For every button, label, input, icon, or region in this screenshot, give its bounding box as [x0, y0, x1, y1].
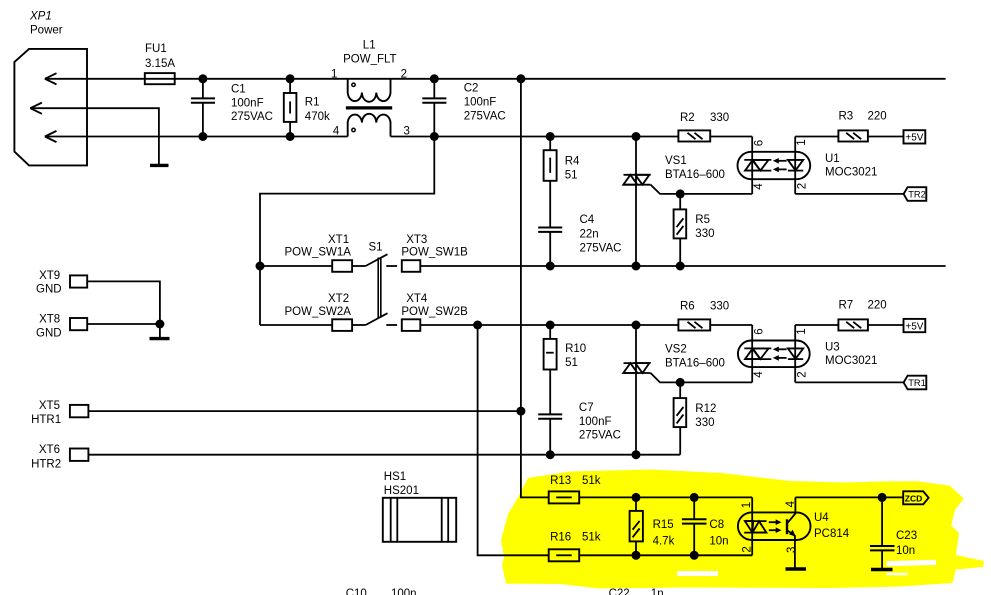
svg-text:3: 3: [786, 547, 798, 553]
wire U3 pin2 to TR1: [795, 381, 903, 383]
svg-text:R1: R1: [305, 97, 320, 109]
svg-text:1: 1: [796, 139, 808, 145]
switch S1 blade lower: [366, 313, 388, 325]
svg-text:PC814: PC814: [814, 528, 850, 540]
svg-text:4.7k: 4.7k: [653, 536, 675, 548]
switch contact dash lower: [386, 324, 397, 326]
switch S1 linkage: [378, 258, 381, 318]
junction row D / R5 bottom: [676, 262, 685, 271]
U3 internal LED: [788, 348, 803, 359]
svg-text:330: 330: [710, 112, 729, 124]
svg-text:6: 6: [754, 328, 766, 334]
svg-text:3.15A: 3.15A: [145, 58, 175, 70]
svg-text:XT3: XT3: [406, 234, 427, 246]
wire TR1 row: gate node to U3 pin4: [680, 381, 752, 383]
svg-text:100nF: 100nF: [464, 97, 497, 109]
svg-text:275VAC: 275VAC: [580, 243, 622, 255]
junction XT8/XT9: [155, 320, 164, 329]
terminal XT9: [70, 275, 87, 287]
svg-text:POW_SW1A: POW_SW1A: [285, 247, 352, 259]
wire U1 pin2 to TR2: [795, 193, 903, 195]
switch contact dash upper: [386, 265, 397, 267]
svg-text:C23: C23: [896, 530, 917, 542]
wire row B left: pin3 to L1 pin4: [45, 136, 348, 138]
wire pin1 to fuse: [45, 78, 145, 80]
wire U3 pin1 to R7: [795, 324, 838, 326]
svg-text:2: 2: [741, 546, 753, 552]
junction row G / C7 bottom: [546, 450, 555, 459]
junction row E / R16 branch: [473, 321, 482, 330]
junction row A / R1: [286, 74, 295, 83]
svg-text:POW_SW1B: POW_SW1B: [401, 247, 468, 259]
svg-text:HS1: HS1: [384, 471, 406, 483]
heatsink HS1: [383, 498, 456, 542]
junction row A / C2: [430, 74, 439, 83]
svg-text:10n: 10n: [896, 545, 915, 557]
svg-text:GND: GND: [36, 283, 62, 295]
svg-text:4: 4: [785, 500, 797, 507]
svg-text:POW_SW2A: POW_SW2A: [285, 306, 352, 318]
svg-text:275VAC: 275VAC: [464, 110, 506, 122]
svg-text:51: 51: [565, 170, 578, 182]
junction row D / C4 bottom: [546, 262, 555, 271]
capacitor C2: [422, 79, 446, 137]
wire XT2 to switch blade: [352, 324, 366, 326]
triac VS2: [623, 325, 680, 455]
svg-text:MOC3021: MOC3021: [825, 355, 877, 367]
junction row B / VS1 top: [632, 132, 641, 141]
connector XP1 outline: [14, 49, 87, 165]
svg-text:R7: R7: [839, 300, 854, 312]
capacitor C7: [538, 414, 562, 454]
svg-text:BTA16–600: BTA16–600: [665, 169, 725, 181]
svg-text:U3: U3: [825, 342, 840, 354]
junction row B / R4 top: [546, 132, 555, 141]
terminal XT3: [402, 260, 421, 272]
wire row C: gate node to U1 pin4: [680, 193, 752, 195]
terminal XT8: [70, 318, 87, 330]
svg-text:275VAC: 275VAC: [579, 430, 621, 442]
svg-text:220: 220: [868, 111, 887, 123]
U1 internal triac: [744, 160, 771, 171]
svg-text:+5V: +5V: [905, 133, 923, 144]
wire row E: XT4 to R6: [420, 324, 678, 326]
svg-text:C10: C10: [346, 588, 367, 595]
svg-text:R6: R6: [680, 301, 695, 313]
capacitor C8: [682, 497, 707, 555]
optocoupler U1 body: [738, 137, 811, 194]
svg-text:XP1: XP1: [29, 11, 52, 23]
svg-text:XT4: XT4: [406, 293, 428, 305]
junction row H / R15 top: [632, 493, 641, 502]
svg-text:1: 1: [741, 502, 753, 508]
inductor L1 common-mode choke: [346, 79, 392, 137]
XP1 pin 1 arrow: [45, 73, 57, 84]
junction row H / C8 top: [690, 493, 699, 502]
svg-text:51k: 51k: [582, 531, 601, 543]
svg-text:330: 330: [695, 417, 714, 429]
net flag TR1: [904, 376, 927, 390]
U1 internal LED: [788, 160, 803, 171]
junction row G / VS2 bottom: [632, 450, 641, 459]
junction row I / R15 bottom: [632, 551, 641, 560]
svg-text:HS201: HS201: [384, 485, 419, 497]
svg-text:ZCD: ZCD: [905, 493, 922, 503]
svg-text:U4: U4: [814, 512, 829, 524]
svg-text:2: 2: [797, 371, 809, 377]
svg-text:1: 1: [796, 328, 808, 334]
svg-text:R4: R4: [565, 156, 580, 168]
svg-text:R2: R2: [680, 112, 695, 124]
wire U4 pin4 row to ZCD: [795, 496, 903, 498]
svg-text:R5: R5: [695, 214, 710, 226]
resistor R10: [544, 325, 557, 414]
svg-text:GND: GND: [36, 327, 62, 339]
svg-text:XT6: XT6: [39, 444, 60, 456]
terminal XT1: [332, 260, 352, 272]
capacitor C4: [538, 228, 562, 267]
junction row E / R10 top: [546, 321, 555, 330]
svg-text:220: 220: [868, 300, 887, 312]
svg-text:XT9: XT9: [39, 270, 60, 282]
resistor R7: [838, 319, 868, 330]
junction row B / C1 bottom: [198, 132, 207, 141]
wire R6 to U3 pin6: [710, 324, 752, 326]
svg-text:51k: 51k: [582, 475, 601, 487]
U4 phototransistor: [787, 497, 796, 569]
svg-text:VS2: VS2: [665, 344, 687, 356]
resistor R6: [678, 319, 710, 330]
junction row I / C8 bottom: [690, 551, 699, 560]
optocoupler U3 body: [738, 325, 810, 382]
net flag TR2: [904, 187, 927, 201]
ground symbol XT8/XT9: [150, 337, 170, 340]
svg-text:R15: R15: [653, 519, 674, 531]
svg-text:C22: C22: [609, 588, 630, 595]
wire XT8 to junction: [87, 323, 160, 325]
svg-text:MOC3021: MOC3021: [825, 166, 877, 178]
U3 internal triac: [744, 348, 771, 359]
svg-text:C2: C2: [464, 82, 479, 94]
wire row D: junction to XT1: [260, 265, 332, 267]
power flag +5V (channel 1): [904, 130, 926, 143]
svg-text:330: 330: [710, 301, 729, 313]
U4 light arrows: [769, 519, 782, 533]
XP1 pin 3 arrow: [45, 131, 57, 142]
ground symbol under pin2: [150, 164, 169, 167]
svg-text:C4: C4: [580, 214, 595, 226]
highlighter yellow patch: [501, 470, 984, 589]
svg-text:R13: R13: [550, 475, 571, 487]
switch S1 blade upper: [366, 254, 388, 266]
wire HTR1 row F: [88, 410, 521, 412]
power flag +5V (channel 2): [904, 319, 926, 332]
wire junction to ground: [159, 324, 161, 339]
U3 light arrows: [773, 347, 787, 361]
svg-text:TR2: TR2: [908, 190, 926, 200]
wire row B right: L1 pin3 to R2: [391, 136, 679, 138]
wire pin2 to ground jog: [30, 108, 159, 165]
wire XT1 to switch blade: [352, 265, 366, 267]
svg-text:6: 6: [754, 140, 766, 146]
svg-text:HTR1: HTR1: [31, 414, 61, 426]
wire branch XT4 row to R16 row: [478, 325, 549, 555]
svg-text:+5V: +5V: [905, 321, 923, 332]
junction row D / VS1 bottom: [632, 262, 641, 271]
svg-text:S1: S1: [369, 242, 383, 254]
junction row B / C2 bottom: [430, 132, 439, 141]
capacitor C23: [870, 497, 895, 569]
resistor R15: [630, 497, 643, 555]
svg-text:1n: 1n: [651, 588, 664, 595]
svg-text:XT2: XT2: [328, 293, 349, 305]
svg-text:XT5: XT5: [39, 400, 60, 412]
svg-text:4: 4: [753, 183, 765, 190]
wire R2 to U1 pin6: [710, 136, 752, 138]
svg-text:XT1: XT1: [328, 234, 349, 246]
wire HTR2 row G: [88, 454, 680, 456]
svg-text:TR1: TR1: [908, 378, 926, 388]
svg-text:4: 4: [333, 126, 340, 138]
svg-text:100n: 100n: [391, 588, 417, 595]
svg-text:470k: 470k: [305, 111, 330, 123]
capacitor C1: [191, 79, 215, 137]
svg-text:XT8: XT8: [39, 314, 60, 326]
svg-text:51: 51: [565, 357, 578, 369]
terminal XT4: [402, 319, 421, 331]
svg-text:POW_SW2B: POW_SW2B: [401, 306, 468, 318]
wire row H: R13 to U4 pin1: [579, 496, 752, 498]
svg-text:Power: Power: [30, 24, 63, 36]
U4 internal LED pair: [744, 521, 766, 533]
wire U1 pin1 to R3: [795, 136, 838, 138]
svg-text:100nF: 100nF: [579, 416, 612, 428]
svg-text:L1: L1: [363, 40, 376, 52]
svg-text:4: 4: [753, 371, 765, 378]
resistor R2: [678, 130, 710, 141]
wire jog C2 bottom to switch column: [260, 137, 434, 326]
svg-text:R3: R3: [839, 111, 854, 123]
junction row A / C1: [198, 74, 207, 83]
optocoupler U4 body: [738, 497, 811, 555]
wire row E: jog corner to XT2: [260, 324, 332, 326]
resistor R4: [544, 137, 557, 228]
junction row H / C23 top: [878, 493, 887, 502]
svg-text:275VAC: 275VAC: [231, 111, 273, 123]
junction row B / R1 bottom: [286, 132, 295, 141]
svg-text:R16: R16: [550, 531, 571, 543]
wire XT9 to ground jog: [87, 281, 160, 324]
resistor R12: [674, 382, 687, 454]
svg-text:U1: U1: [825, 153, 840, 165]
junction row A / long vertical: [516, 74, 525, 83]
XP1 pin 2 arrow: [30, 103, 42, 114]
fuse FU1: [145, 73, 175, 84]
svg-text:R12: R12: [695, 403, 716, 415]
svg-text:VS1: VS1: [665, 155, 687, 167]
svg-text:C7: C7: [579, 402, 594, 414]
wire R7 to +5V: [868, 324, 904, 326]
svg-text:22n: 22n: [580, 228, 599, 240]
U1 light arrows: [773, 158, 787, 172]
svg-text:C8: C8: [709, 519, 724, 531]
junction row F / long vertical: [516, 407, 525, 416]
junction switch column / row D: [256, 262, 265, 271]
resistor R5: [674, 194, 687, 266]
junction row C / R5 top: [676, 189, 685, 198]
wire row D: XT3 to right end: [420, 265, 945, 267]
svg-text:330: 330: [695, 228, 714, 240]
resistor R13: [549, 491, 580, 503]
svg-text:10n: 10n: [709, 536, 728, 548]
wire row A: fuse to right end: [175, 78, 946, 80]
terminal XT5: [70, 405, 89, 417]
resistor R1: [284, 79, 297, 137]
junction row E / VS2 top: [632, 321, 641, 330]
resistor R16: [549, 549, 580, 561]
ground symbol C23: [871, 568, 893, 571]
svg-text:2: 2: [797, 183, 809, 189]
resistor R3: [838, 130, 868, 141]
svg-text:HTR2: HTR2: [31, 459, 61, 471]
terminal XT6: [70, 449, 89, 461]
svg-text:2: 2: [401, 68, 407, 80]
terminal XT2: [332, 319, 352, 331]
wire row I: R16 to U4 pin2: [579, 554, 752, 556]
svg-text:BTA16–600: BTA16–600: [665, 358, 725, 370]
triac VS1: [623, 137, 680, 267]
svg-text:FU1: FU1: [145, 43, 167, 55]
net flag ZCD: [903, 491, 928, 504]
svg-text:C1: C1: [231, 84, 246, 96]
junction TR1 row / R12 top: [676, 378, 685, 387]
svg-text:POW_FLT: POW_FLT: [343, 54, 396, 66]
svg-text:1: 1: [331, 68, 337, 80]
long vertical net wire: [521, 79, 549, 498]
ground symbol U4 emitter: [786, 567, 807, 570]
wire R3 to +5V: [868, 136, 904, 138]
svg-text:100nF: 100nF: [231, 97, 264, 109]
svg-text:R10: R10: [565, 343, 586, 355]
